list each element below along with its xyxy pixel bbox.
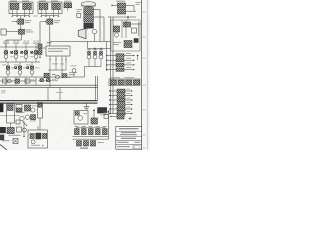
chassis ground band top line	[0, 99, 98, 101]
label field row3 c	[26, 64, 31, 67]
title block divider	[132, 145, 134, 150]
wire rail3b	[38, 80, 58, 82]
marks right of caps	[99, 142, 105, 144]
wire trio drop	[87, 42, 89, 49]
junction dot trio b	[100, 48, 101, 49]
output transistor stage Q7	[30, 62, 39, 77]
part cluster C	[25, 79, 36, 83]
label above small fuse	[118, 111, 126, 114]
page edge dark mark 2	[0, 135, 4, 141]
load branch circuit row 2	[106, 58, 135, 62]
wire trio bottom bus	[85, 66, 102, 68]
control unit outline box	[111, 20, 140, 51]
wire bus drop mid	[59, 87, 61, 100]
wire link row2b	[20, 56, 24, 58]
x-box mark	[13, 139, 18, 144]
drawing frame right border line	[141, 0, 143, 150]
accessory branch row 5	[109, 107, 133, 111]
cell S-a	[30, 134, 34, 139]
label 14 near relay	[47, 42, 52, 43]
component box 2	[16, 105, 22, 113]
heavy hatched block BL2	[7, 127, 14, 133]
ignition transistor Q11 group	[93, 49, 98, 67]
small box rc	[104, 114, 108, 118]
output transistor stage Q5	[6, 62, 15, 77]
label right of resistor	[100, 113, 106, 116]
wire S1 drop	[73, 73, 75, 78]
title block outer box	[116, 127, 142, 150]
accessory branch row 3	[109, 98, 133, 102]
title cell mark	[134, 146, 140, 149]
label above sensor pair	[64, 0, 71, 3]
wire link between modules	[33, 15, 38, 17]
small part left of horn	[77, 14, 81, 18]
wire D1 drop	[6, 34, 22, 47]
part cluster B	[15, 77, 21, 83]
power resistor dark block	[98, 108, 107, 114]
wire tall box drop	[10, 123, 12, 127]
plus mark	[129, 117, 132, 120]
transistor Q30	[78, 116, 83, 121]
label bl2	[9, 135, 21, 136]
fuse block above title	[117, 114, 124, 119]
part cluster A	[3, 79, 12, 83]
label near D6	[32, 105, 38, 108]
resistor block R6 on feed	[38, 50, 42, 55]
wire link row2c	[30, 56, 34, 58]
part cluster BL3	[17, 127, 27, 132]
wire bus drop mid2	[47, 87, 49, 100]
wire fuse left lead	[112, 4, 118, 6]
wire dome to coil	[88, 7, 90, 8]
diode mark f4	[15, 67, 17, 69]
cap C3 block	[91, 141, 96, 146]
title text row 4b	[135, 141, 141, 144]
wire horn right tap lower	[93, 16, 104, 18]
title text row 3	[121, 138, 136, 139]
bus connector drops	[6, 77, 36, 85]
diode D3 on rail	[44, 73, 49, 78]
wire J1 to diode block	[6, 31, 18, 33]
wire bc top rail	[76, 127, 105, 129]
wire module2 drop	[49, 27, 51, 47]
label LX	[80, 148, 88, 149]
load branch circuit row 1	[106, 53, 135, 57]
wire rail row2	[0, 61, 40, 63]
cell in narrow box	[38, 103, 42, 107]
connector strip block 2	[124, 45, 132, 48]
horn magnet dark block	[84, 23, 94, 28]
small box bl mid	[16, 120, 20, 124]
fuse F1 block	[118, 3, 126, 8]
load branch circuit row 3	[106, 63, 135, 67]
label small left	[1, 91, 6, 94]
cell in ecu box	[75, 112, 79, 116]
transistor Q8 on rail	[56, 75, 60, 79]
sensor pair cell 1	[64, 3, 67, 8]
wire K2b to frame	[131, 23, 142, 25]
page edge dark mark 1	[0, 104, 3, 113]
transistor in starter box	[31, 140, 35, 144]
wire module1 drop	[19, 27, 21, 32]
cap C1 block	[77, 141, 82, 146]
wire relay drop 1	[49, 70, 51, 87]
arrow bc vert top	[108, 110, 110, 112]
title text row 5	[117, 145, 130, 148]
diode block D1	[19, 29, 25, 34]
wire magnet to cone	[87, 28, 89, 29]
title block line 3	[116, 140, 142, 142]
diode D4 on rail	[62, 74, 67, 78]
relay contact block K2b	[124, 22, 131, 27]
fuse band blocks	[110, 80, 139, 85]
wire rail row3	[0, 76, 85, 78]
label right on rail	[69, 72, 77, 75]
fuse band labels	[110, 76, 134, 79]
horn coil lower block	[84, 16, 94, 23]
junction dot row1	[137, 55, 139, 60]
wire parts rail left	[0, 80, 36, 82]
diode mark f1	[11, 51, 13, 53]
wire main rail horizontal	[50, 41, 111, 43]
wire bus riser right 1	[95, 76, 97, 100]
fuse band outline	[109, 79, 140, 86]
diode mark f5	[27, 67, 29, 69]
wire riser arrow	[93, 109, 95, 118]
wire bus vertical V1	[110, 17, 112, 114]
diode D6	[25, 105, 31, 111]
wire bus riser right 2	[97, 76, 99, 100]
title text row 4a	[118, 141, 129, 144]
transistor Q22	[25, 115, 29, 119]
wire below-band h	[0, 115, 20, 117]
starter unit outline box	[28, 130, 48, 148]
wire fuse-title left	[110, 116, 117, 118]
label S1	[71, 65, 77, 68]
wire cu vertical 1	[121, 20, 123, 38]
cell S-c	[43, 134, 47, 139]
relay K1 box	[46, 46, 70, 56]
wire bc bus 1	[73, 136, 109, 138]
load branch circuit row 4	[106, 67, 135, 71]
arrow feed	[39, 57, 41, 58]
diode mark g2	[47, 79, 50, 82]
junction dot trio a	[94, 48, 95, 49]
diode mark f3	[31, 51, 33, 53]
wire into starter box	[37, 126, 39, 130]
wire rail row1	[0, 46, 40, 48]
label B+ terminal	[136, 2, 142, 5]
hatched x-block	[91, 118, 97, 124]
relay K1 label line 2	[48, 51, 63, 52]
wire ladder collector vertical	[106, 42, 108, 72]
label near D1	[26, 30, 34, 33]
resistor pack row	[75, 126, 108, 134]
transistor Q20	[31, 108, 35, 112]
wire bus vertical V2	[112, 17, 114, 114]
injector bank module 2	[38, 1, 62, 27]
accessory branch row 1	[109, 89, 133, 93]
label in control unit	[113, 42, 121, 45]
label field row3 a	[2, 64, 7, 67]
cell S-b dark	[36, 133, 41, 139]
horn dome base line	[81, 5, 95, 7]
driver transistor stage Q3	[23, 41, 29, 62]
junction dot	[127, 16, 129, 18]
frame zone tick 2	[143, 36, 146, 38]
output transistor stage Q6	[18, 62, 27, 77]
frame zone tick 3	[143, 57, 146, 59]
arrow fuse left	[111, 4, 112, 6]
chassis ground band bottom line	[0, 102, 98, 104]
ecu small box outline	[74, 111, 88, 125]
diode mark f2	[21, 51, 23, 53]
ignition transistor Q12 group	[99, 49, 104, 67]
horn contact circle	[92, 29, 97, 34]
title text row 2a	[121, 131, 136, 134]
connector J1 small box	[1, 29, 6, 35]
label field row2 d	[33, 51, 37, 54]
dark block BL1	[0, 127, 6, 133]
wire relay drop 2	[61, 70, 63, 77]
accessory branch row 4	[109, 102, 133, 106]
ignition transistor Q10 group	[87, 49, 92, 67]
driver transistor stage Q1	[3, 41, 9, 62]
connector strip block	[124, 41, 132, 44]
wire horn right tap upper	[93, 9, 100, 11]
mark right rc	[104, 111, 109, 114]
sensor S1 circle	[72, 69, 76, 73]
sensor pair cell 2	[68, 3, 71, 8]
horn cone	[78, 28, 86, 38]
label field row2 a	[3, 51, 7, 54]
cap C2 block	[84, 141, 89, 146]
transistor Q21	[20, 116, 24, 120]
wire relay feed vertical	[39, 22, 41, 58]
label above fuses	[116, 0, 125, 3]
wire fuse link vertical	[133, 6, 135, 12]
wire main bus line 1	[0, 84, 98, 86]
drawing frame right edge line	[146, 0, 148, 150]
wire bus drop B	[103, 17, 105, 42]
driver transistor stage Q4	[33, 41, 39, 62]
frame zone tick 1	[143, 11, 146, 13]
label field row3 b	[14, 64, 19, 67]
frame zone tick 5	[143, 109, 146, 111]
wire horn contact drop	[94, 34, 96, 42]
label bl3	[2, 140, 10, 141]
accessory branch row 2	[109, 93, 133, 97]
title block line 4	[116, 144, 142, 146]
wire fuse F1 right lead	[126, 5, 135, 7]
diode block D8	[31, 115, 36, 120]
wire fuse F2 right lead	[126, 10, 137, 12]
wire narrow box to starter	[39, 118, 41, 130]
resistor block R5 on feed	[38, 44, 42, 49]
title block line 1	[116, 130, 142, 132]
diagonal arrow mark	[23, 121, 28, 126]
dark block top-right	[134, 39, 138, 43]
wire bc bus 2	[73, 138, 109, 140]
driver transistor stage Q2	[13, 41, 19, 62]
wire bc right vertical	[108, 111, 110, 140]
ground	[84, 103, 90, 110]
relay output wires	[49, 56, 67, 70]
relay K1 label line 1	[48, 48, 68, 49]
wire bus drop A	[99, 10, 101, 42]
label g3	[52, 78, 56, 81]
wire trio top rail	[88, 48, 111, 50]
wire main bus line 2	[0, 86, 98, 88]
injector bank module 1	[9, 1, 33, 27]
relay coil block K2	[114, 26, 120, 32]
wire feed horizontal	[108, 16, 136, 18]
wire link row2	[10, 56, 14, 58]
chassis ground band fill	[0, 101, 98, 103]
wire cu vertical 3	[138, 22, 140, 36]
horn coil upper block	[84, 8, 94, 15]
title text row 2b	[120, 133, 137, 136]
label bl mid	[30, 120, 36, 123]
resistor block R20	[132, 28, 137, 33]
transistor Q10	[114, 33, 118, 37]
label field row2 c	[23, 51, 27, 54]
fuse F2 block	[118, 9, 126, 14]
label under relay	[52, 63, 64, 66]
title block line 2	[116, 135, 142, 137]
frame zone tick 4	[143, 84, 146, 86]
wire relay left lead	[42, 47, 46, 49]
title text row 1	[119, 128, 139, 129]
wire junction drop	[127, 17, 129, 20]
component box tall left	[7, 104, 15, 123]
marks bottom of starter box	[31, 145, 44, 147]
page corner diagonal	[0, 145, 7, 151]
wire sensor pair drop	[67, 8, 69, 11]
wire cu vertical 2	[125, 20, 127, 38]
label g4	[63, 76, 71, 79]
part marks on rail	[52, 73, 56, 76]
relay cell in tall box	[8, 105, 14, 111]
mark in ecu box	[84, 112, 88, 115]
diode mark g1	[40, 79, 43, 82]
horn dome cover	[81, 2, 95, 7]
wire trio to rail3	[84, 67, 86, 78]
label bl1	[17, 111, 25, 114]
accessory branch row 6	[109, 111, 133, 115]
label left of horn	[77, 9, 83, 12]
wire relay bottom bus	[48, 69, 66, 71]
label mid wire	[56, 91, 63, 94]
label field row2 b	[13, 51, 17, 54]
frame zone tick 7	[143, 147, 146, 149]
frame zone tick 6	[143, 134, 146, 136]
wire Q21 drop	[23, 121, 25, 137]
tall narrow connector box	[38, 103, 43, 119]
